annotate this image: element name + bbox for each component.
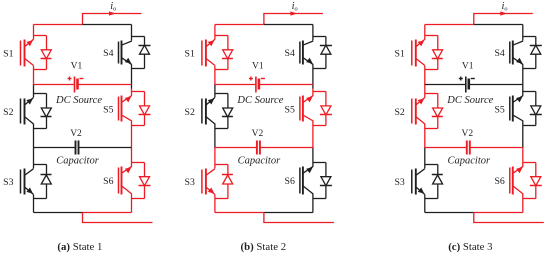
svg-text:S3: S3 — [185, 177, 195, 188]
svg-text:S5: S5 — [103, 104, 113, 115]
svg-text:DC Source: DC Source — [446, 95, 493, 106]
svg-text:S5: S5 — [494, 104, 504, 115]
svg-text:Capacitor: Capacitor — [448, 156, 491, 167]
svg-text:S5: S5 — [285, 104, 295, 115]
svg-text:Capacitor: Capacitor — [56, 156, 99, 167]
svg-text:S6: S6 — [285, 176, 295, 187]
svg-text:S3: S3 — [394, 177, 404, 188]
svg-text:(b) State 2: (b) State 2 — [241, 241, 287, 253]
svg-text:V2: V2 — [252, 129, 264, 139]
svg-text:V2: V2 — [461, 129, 473, 139]
svg-text:S6: S6 — [494, 176, 504, 187]
svg-text:S2: S2 — [185, 107, 195, 118]
svg-text:Capacitor: Capacitor — [238, 156, 281, 167]
svg-text:S3: S3 — [3, 177, 13, 188]
svg-text:S6: S6 — [103, 176, 113, 187]
svg-text:DC Source: DC Source — [236, 95, 283, 106]
svg-text:S2: S2 — [3, 107, 13, 118]
svg-text:S1: S1 — [185, 48, 195, 59]
svg-text:S2: S2 — [394, 107, 404, 118]
svg-text:(c) State 3: (c) State 3 — [448, 241, 492, 253]
svg-text:S4: S4 — [285, 48, 295, 59]
svg-text:V2: V2 — [70, 129, 82, 139]
svg-text:V1: V1 — [462, 62, 474, 72]
svg-text:V1: V1 — [71, 62, 83, 72]
svg-text:(a) State 1: (a) State 1 — [57, 241, 102, 253]
svg-text:S1: S1 — [394, 48, 404, 59]
svg-text:V1: V1 — [252, 62, 264, 72]
svg-text:S4: S4 — [103, 48, 113, 59]
svg-text:DC Source: DC Source — [55, 95, 102, 106]
svg-text:S4: S4 — [494, 48, 504, 59]
svg-text:S1: S1 — [3, 48, 13, 59]
